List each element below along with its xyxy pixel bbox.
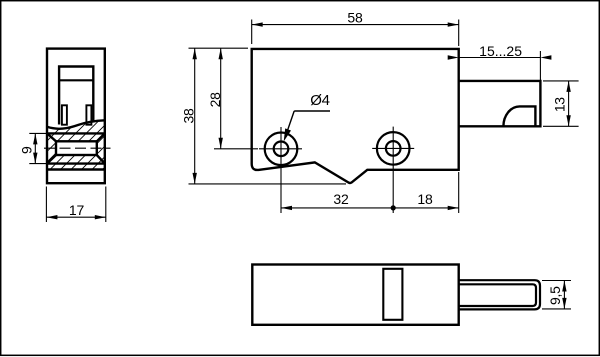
hole left horizontal centreline <box>259 148 302 150</box>
svg-text:Ø4: Ø4 <box>310 92 329 109</box>
mounting hole left inner Ø4 <box>274 142 289 157</box>
dimension 17 line <box>46 216 105 218</box>
bore centreline <box>41 147 111 149</box>
hole right horizontal centreline <box>372 147 414 149</box>
svg-text:17: 17 <box>69 202 85 218</box>
spool bottom line <box>47 162 105 164</box>
dimension 32/18 extension right <box>458 172 460 213</box>
dimension 38 line <box>194 48 196 184</box>
svg-text:28: 28 <box>207 92 223 107</box>
dimension 58 extension left <box>251 20 253 45</box>
break line <box>47 120 105 128</box>
side view body outline <box>47 49 105 184</box>
spool top line <box>47 132 105 134</box>
svg-text:15...25: 15...25 <box>479 43 522 59</box>
section hatching <box>10 116 188 178</box>
dimension 17 extension right <box>105 187 107 223</box>
lower left chamfer <box>47 155 56 164</box>
svg-text:9: 9 <box>19 146 35 154</box>
dimension 9,5 extension top <box>542 280 571 282</box>
front view body outline <box>252 49 459 183</box>
bottom view body outline <box>252 265 458 325</box>
dimension 13 extension bottom <box>543 125 579 127</box>
left spring slot <box>62 105 67 124</box>
hole right vertical centreline / extension <box>392 127 394 213</box>
mounting hole left outer <box>265 133 298 166</box>
dimension 13 extension top <box>543 80 579 82</box>
base band line <box>47 168 105 170</box>
dimension 28 extension bottom <box>214 148 258 150</box>
mounting hole right outer <box>377 132 410 165</box>
mounting hole right inner Ø4 <box>386 141 401 156</box>
lower right chamfer <box>97 155 105 164</box>
bolt tongue outline <box>459 81 541 126</box>
svg-text:13: 13 <box>552 97 568 112</box>
hole left vertical centreline / extension <box>280 127 282 213</box>
dimension 17 extension left <box>45 187 47 223</box>
junction dot <box>391 205 396 210</box>
button housing window <box>59 67 93 125</box>
button slot <box>383 269 402 320</box>
dimension 18 line <box>393 207 459 209</box>
dimension 28 line <box>220 48 222 149</box>
upper left chamfer <box>47 133 56 141</box>
bolt top view outer <box>459 280 540 309</box>
bolt top view inner <box>459 284 536 306</box>
dimension 15...25 line <box>459 57 541 59</box>
leader line Ø4 <box>287 111 294 133</box>
dimension 13 line <box>568 81 570 126</box>
right spring slot <box>86 105 91 124</box>
dimension 58 line <box>252 24 459 26</box>
svg-text:38: 38 <box>180 108 196 123</box>
svg-text:9,5: 9,5 <box>547 286 563 305</box>
dimension 9 extension bottom <box>29 163 46 165</box>
bolt nose arc <box>503 106 535 126</box>
dimension 9 line <box>34 133 36 163</box>
dimension 38 extension bottom <box>189 183 347 185</box>
button cap line <box>59 79 93 81</box>
dimension 9,5 line <box>563 281 565 309</box>
dimension 9,5 extension bottom <box>542 308 571 310</box>
dimension 9 extension top <box>29 132 46 134</box>
upper right chamfer <box>97 133 105 141</box>
dimension 32 line <box>281 207 393 209</box>
svg-text:18: 18 <box>417 191 433 207</box>
svg-text:32: 32 <box>333 191 349 207</box>
bore window <box>56 141 97 155</box>
dimension 38 extension top <box>189 47 249 49</box>
dimension 58 extension right <box>458 20 460 47</box>
svg-text:58: 58 <box>347 10 363 26</box>
bore rectangle <box>56 141 97 155</box>
dimension 15...25 extension right <box>539 51 541 80</box>
